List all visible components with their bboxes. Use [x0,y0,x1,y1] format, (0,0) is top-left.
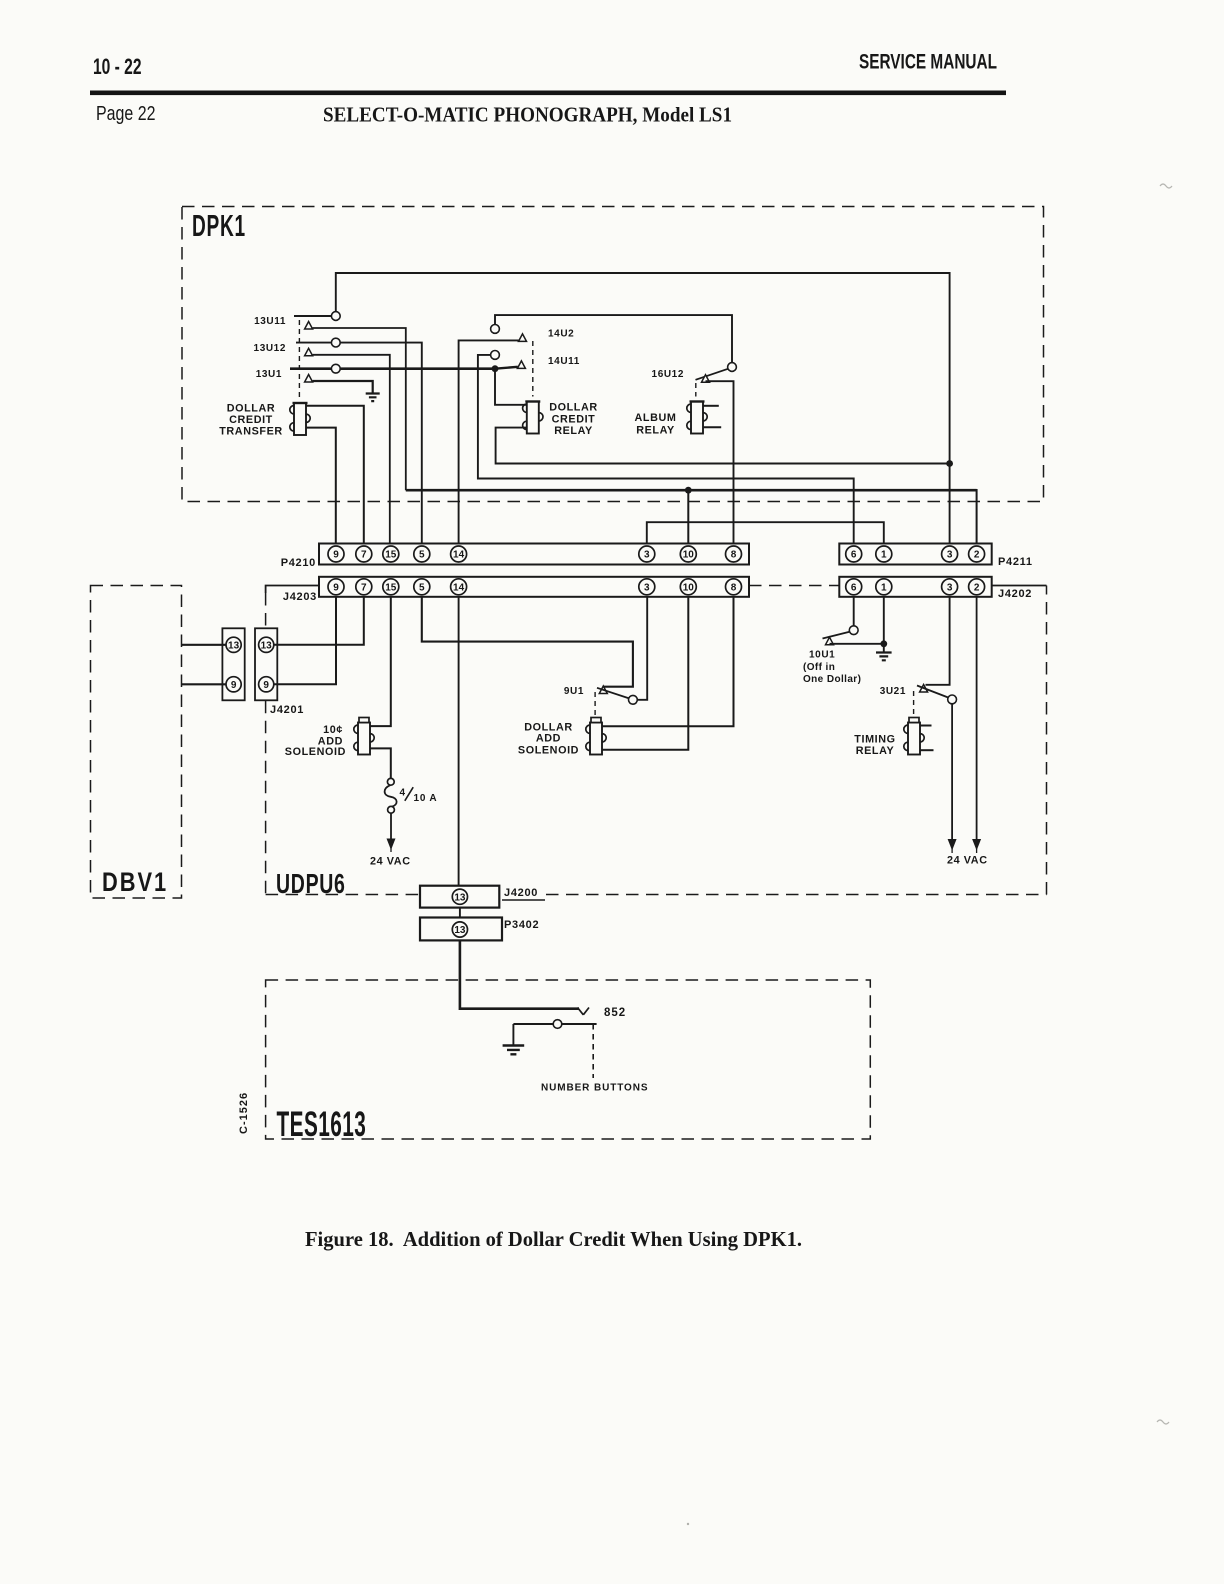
svg-text:P3402: P3402 [504,919,539,931]
pin 3 J4202 [942,579,958,595]
connector strip J4202 [839,577,991,597]
wire: J4202 pin 2 down with arrow to 24VAC [976,597,978,841]
svg-text:DPK1: DPK1 [192,210,246,244]
switch 852 line [513,1023,596,1025]
svg-text:15: 15 [385,582,397,593]
DBV1 plug shell [222,628,244,700]
svg-text:P4211: P4211 [998,556,1033,568]
pin 7 P4210 [356,546,372,562]
pin 9 P4210 [328,546,344,562]
svg-text:ADD: ADD [536,732,561,744]
svg-text:3: 3 [644,550,650,561]
svg-text:CREDIT: CREDIT [229,414,273,426]
switch 3U21 blade [917,686,949,698]
pin 9 J4203 [328,579,344,595]
svg-text:ALBUM: ALBUM [635,412,677,424]
heavy wire: 13U1 fixed line to 14U11 arm [290,367,495,370]
wire DBV1 to plug pin 13 [181,644,226,646]
switch 852 contact circle [553,1020,562,1029]
connector strip J4203 [319,577,749,597]
wire: J4202 pin 3 down-over to 3U21 triangle [926,597,950,685]
mechanical link dashes 9U1 to dollar add solenoid [594,692,596,717]
node D junction dot [880,640,887,647]
wire J4201-13 to J4203 pin 7 [274,597,364,645]
fuse 4/10A top circle [387,778,394,785]
svg-text:SOLENOID: SOLENOID [518,744,579,756]
pin 13 J4201 [259,637,274,652]
heavy wire: P3402 pin 13 down and right to 852 [460,940,579,1008]
wire: J4203 pin 5 over and down to 9U1 arm [422,597,633,687]
svg-text:10: 10 [683,550,695,561]
svg-text:9: 9 [333,550,339,561]
svg-text:10 - 22: 10 - 22 [93,54,142,79]
wire: 14U2 contact up over to 16U12 circle [495,315,732,363]
J4201 jack shell [255,628,277,700]
pin 3 P4211 [942,546,958,562]
wire: 13U11 contact up and across top to P4211 pin 3 [336,273,950,544]
svg-text:TRANSFER: TRANSFER [219,425,283,437]
wire: 14U11 contact left-down-right to P4211 pin 6 [478,355,854,544]
P3402 shell [420,918,502,941]
switch 13U12 fixed contact circle [331,338,340,347]
connector strip P4211 [839,544,991,565]
switch 13U1 fixed contact circle [331,364,340,373]
svg-text:9: 9 [231,680,237,691]
svg-text:13: 13 [454,925,466,936]
arrowhead 24VAC right [972,839,981,851]
DPK1 box [182,207,1044,502]
svg-text:2: 2 [974,550,980,561]
pin 8 P4210 [726,546,742,562]
svg-text:8: 8 [731,550,737,561]
svg-text:TES1613: TES1613 [277,1106,367,1145]
pin 3 P4210 [639,546,655,562]
switch 13U12 fixed wire to P4210 pin 5 [296,343,422,544]
pin 6 P4211 [846,546,862,562]
svg-text:3U21: 3U21 [880,686,906,697]
switch 14U2 movable arm to P4210 pin 14 [459,340,519,543]
svg-text:13: 13 [454,892,466,903]
svg-text:6: 6 [851,550,857,561]
wire: J4202 pin 1 down to ground [883,597,885,652]
switch 10U1 triangle [826,637,834,645]
relay coil DOLLAR CREDIT RELAY [523,402,543,434]
svg-text:3: 3 [644,582,650,593]
svg-text:2: 2 [974,582,980,593]
svg-text:10: 10 [683,582,695,593]
svg-text:13U12: 13U12 [254,343,286,354]
switch 13U1 movable arm to ground [313,381,373,393]
svg-text:DOLLAR: DOLLAR [549,402,598,414]
svg-text:13: 13 [228,640,240,651]
svg-text:CREDIT: CREDIT [552,413,596,425]
svg-text:Page 22: Page 22 [96,103,156,125]
wire: transfer coil upper terminal to P4210 pin 7 [306,406,364,544]
switch 3U21 fixed contact circle [948,695,957,704]
pins of P4211 [846,546,985,562]
pins of J4202 [846,579,985,595]
pin 6 J4202 [846,579,862,595]
svg-text:C-1526: C-1526 [238,1092,250,1134]
wire: 16U12 triangle to P4210 pin 8 [706,381,734,543]
wire: node C down to dollar credit relay upper terminal [495,369,527,405]
switch 13U11 arm triangle [305,322,313,330]
svg-text:7: 7 [361,550,367,561]
pin 14 J4203 [451,579,467,595]
switch 9U1 fixed contact circle [629,695,638,704]
pin 15 J4203 [383,579,399,595]
svg-text:10¢: 10¢ [323,724,343,736]
pin 2 P4211 [969,546,985,562]
switch 9U1 arm triangle [599,686,607,694]
wire J4203 pin 14 down to J4200 [458,597,460,886]
switch 13U11 fixed contact circle [331,312,340,321]
svg-text:14U11: 14U11 [548,356,580,367]
J4200 shell [420,886,499,908]
wire: dollar add solenoid lower terminal to J4203 pin 10 [602,597,688,750]
svg-text:RELAY: RELAY [554,425,593,437]
pin 7 J4203 [356,579,372,595]
svg-text:3: 3 [947,582,953,593]
switch 10U1 blade [823,632,850,639]
relay coil DOLLAR CREDIT TRANSFER [290,403,310,435]
wire: fuse down with arrow to 24VAC [390,813,392,841]
album relay lower stub [703,426,721,428]
svg-text:13U11: 13U11 [254,316,286,327]
fuse 4/10A squiggle [385,785,397,806]
svg-text:P4210: P4210 [281,557,316,569]
scan noise marks [1160,184,1172,188]
switch 13U11 movable arm [313,328,406,490]
pin 14 P4210 [451,546,467,562]
switch 13U1 arm triangle [305,375,313,383]
pin 9 J4201 [259,677,274,692]
pin 13 J4200 [452,889,467,904]
svg-text:J4200: J4200 [504,887,538,899]
svg-text:1: 1 [881,550,887,561]
wire: dollar credit relay lower terminal across to junction A [496,428,950,464]
UDPU6 box (left edge split around J4201, top edge drawn separately) [266,586,1047,895]
svg-text:13: 13 [261,640,273,651]
switch 16U12 blade [696,369,729,380]
svg-text:852: 852 [604,1007,626,1019]
wire: transfer coil lower terminal to P4210 pin 9 [306,428,336,544]
solenoid coil DOLLAR ADD SOLENOID [586,718,606,755]
wire: J4202 pin 6 down to 10U1 [853,597,855,626]
svg-text:(Off in: (Off in [803,662,835,673]
pin numbers J4202 [851,582,980,593]
fuse 4/10A bottom circle [388,806,395,813]
switch 13U11 fixed contact wire [294,315,331,317]
wire: 3U21 contact down with arrow to 24VAC [951,704,953,841]
relay coil ALBUM RELAY [687,402,707,434]
pin numbers P4210 [333,550,737,561]
pin 10 P4210 [680,546,696,562]
pin 10 J4203 [680,579,696,595]
svg-text:24 VAC: 24 VAC [947,855,988,867]
svg-text:UDPU6: UDPU6 [276,869,346,900]
wire: dollar add solenoid upper terminal to J4203 pin 8 [602,597,733,727]
pin 9 DBV1 plug [226,677,241,692]
ground for 852 [503,1046,525,1055]
heavy wire: 13U11 arm run to P4211 pin 2 [406,489,977,492]
mechanical link dashes 14U2/14U11 to dollar credit relay [532,341,534,397]
svg-text:14: 14 [453,550,465,561]
svg-text:10U1: 10U1 [809,650,835,661]
svg-text:5: 5 [419,582,425,593]
relay coil TIMING RELAY [904,718,924,755]
svg-text:Figure 18. Addition of Dollar: Figure 18. Addition of Dollar Credit Whe… [305,1227,802,1251]
switch 14U11 fixed contact circle [491,351,500,360]
svg-text:7: 7 [361,582,367,593]
svg-text:RELAY: RELAY [856,745,895,757]
svg-text:24 VAC: 24 VAC [370,856,411,868]
svg-text:One Dollar): One Dollar) [803,674,861,685]
wire: heavy run drop to P4211 pin 2 [976,489,978,544]
svg-text:9U1: 9U1 [564,686,584,697]
ground for 13U1 arm [366,394,380,402]
switch 3U21 triangle [920,685,928,693]
svg-text:NUMBER BUTTONS: NUMBER BUTTONS [541,1083,648,1094]
UDPU6 top border solid piece right of J4202 [992,585,1047,587]
svg-text:9: 9 [333,582,339,593]
svg-text:DBV1: DBV1 [102,868,168,898]
arrowhead 24VAC left [387,839,396,851]
svg-text:SERVICE MANUAL: SERVICE MANUAL [859,51,997,74]
svg-text:8: 8 [731,582,737,593]
wire: solenoid lower terminal to fuse [370,748,391,778]
UDPU6 top-left corner solid piece [266,586,319,594]
svg-text:5: 5 [419,550,425,561]
switch 13U12 arm triangle [305,348,313,356]
svg-text:14: 14 [453,582,465,593]
switch 13U12 movable arm to P4210 pin 15 [313,355,390,544]
svg-text:1: 1 [881,582,887,593]
pin numbers J4203 [333,582,737,593]
album relay upper stub [703,405,719,407]
svg-text:J4202: J4202 [998,588,1032,600]
DBV1 box [91,586,182,899]
wire: J4203 pin 15 down to 10c add solenoid [370,597,391,726]
solenoid coil 10c ADD SOLENOID [354,718,374,755]
dashed link 852 to number buttons [592,1024,594,1078]
connector strip P4210 [319,544,749,565]
svg-text:6: 6 [851,582,857,593]
pin numbers P4211 [851,550,980,561]
header rule [90,91,1006,96]
mechanical link dashes 3U21 to timing relay [913,691,915,717]
arrowhead 24VAC middle [948,839,957,851]
wire: 9U1 contact to J4203 pin 3 [637,597,647,700]
pin 1 P4211 [876,546,892,562]
wire: P4210 pin 3 up-over to P4211 pin 1 [647,522,884,543]
svg-text:DOLLAR: DOLLAR [227,402,276,414]
pin 13 DBV1 plug [226,637,241,652]
wire: 10U1 triangle to ground node D [830,643,884,645]
pin numbers J4201 [228,640,272,691]
pins of J4203 [328,579,742,595]
ground for 10U1 / pin 1 [876,653,892,661]
pin 5 J4203 [414,579,430,595]
svg-text:16U12: 16U12 [652,369,684,380]
svg-text:13U1: 13U1 [256,369,282,380]
wire J4201-9 to J4203 pin 9 [274,597,336,685]
pin 8 J4203 [726,579,742,595]
wire: node C to 14U11 arm triangle [495,367,518,369]
node B junction dot to P4210 pin 10 [685,487,692,494]
node A junction dot [946,460,953,467]
timing relay upper stub [920,725,932,727]
wire between J4200 and P3402 [459,908,461,918]
svg-text:15: 15 [385,550,397,561]
svg-text:TIMING: TIMING [854,734,895,746]
svg-text:4: 4 [400,788,406,799]
switch 14U11 arm triangle [517,361,525,369]
svg-text:RELAY: RELAY [636,424,675,436]
switch 10U1 fixed contact circle [849,626,858,635]
timing relay lower stub [920,749,934,751]
switch 16U12 triangle [702,375,710,383]
svg-text:9: 9 [263,680,269,691]
TES1613 box [266,980,871,1139]
pin 3 J4203 [639,579,655,595]
pin 13 P3402 [452,922,467,937]
wire: node B down to P4210 pin 10 [687,490,689,543]
wire DBV1 to plug pin 9 [181,683,226,685]
mechanical link dashes 13U11/12/1 to transfer coil [298,320,300,400]
svg-text:3: 3 [947,550,953,561]
pin 15 P4210 [383,546,399,562]
svg-text:J4203: J4203 [283,591,317,603]
pin 2 J4202 [969,579,985,595]
switch 14U2 arm triangle [519,334,527,342]
svg-text:10 A: 10 A [414,793,438,804]
node C junction dot under 14U11 [492,365,499,372]
svg-text:SELECT-O-MATIC PHONOGRAPH, Mod: SELECT-O-MATIC PHONOGRAPH, Model LS1 [323,103,732,127]
switch 16U12 fixed contact circle [728,363,737,372]
mechanical link dashes 16U12 to album relay [695,383,697,397]
svg-text:14U2: 14U2 [548,329,574,340]
wire: 852 left end down to ground [512,1024,514,1045]
pin 1 J4202 [876,579,892,595]
svg-text:J4201: J4201 [270,704,304,716]
switch 14U2 fixed contact circle [491,325,500,334]
svg-text:SOLENOID: SOLENOID [285,746,346,758]
switch 9U1 blade [597,688,630,699]
arrowhead at 852 [578,1008,590,1015]
pin 5 P4210 [414,546,430,562]
pins of P4210 [328,546,742,562]
